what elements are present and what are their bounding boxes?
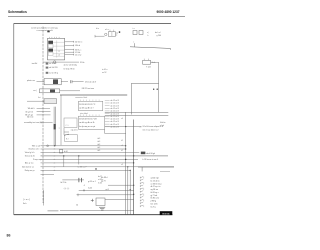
svg-text:ce 36 kl mn p: ce 36 kl mn p [151, 183, 162, 185]
svg-text:tb 3: tb 3 [97, 146, 100, 149]
svg-text:t u: t u [133, 27, 135, 30]
svg-text:g 244: g 244 [157, 35, 162, 37]
svg-text:ln 25 j: ln 25 j [151, 206, 157, 208]
svg-text:FN 22 text row: FN 22 text row [82, 87, 95, 90]
svg-text:bx f rd: bx f rd [155, 31, 160, 34]
svg-text:Lorem ipsum dolor st amet pg: Lorem ipsum dolor st amet pg [31, 27, 57, 30]
svg-text:ab: ab [54, 162, 56, 164]
svg-text:assembly text row (4): assembly text row (4) [24, 121, 42, 124]
svg-text:tb 3: tb 3 [97, 137, 100, 140]
svg-text:ab: ab [54, 145, 56, 147]
svg-text:Gn yel rd: Gn yel rd [25, 110, 33, 113]
svg-text:uv 52: uv 52 [102, 72, 106, 74]
svg-text:- 5: - 5 [83, 185, 85, 187]
svg-text:5d: 5d [76, 205, 78, 207]
svg-text:2x: 2x [140, 126, 142, 128]
svg-text:fu 65: fu 65 [98, 182, 102, 184]
svg-text:gt 55 xz 1: gt 55 xz 1 [88, 180, 96, 183]
svg-text:ab: ab [54, 170, 56, 172]
svg-text:eg 58 vw: eg 58 vw [151, 189, 159, 191]
svg-text:text lbl: text lbl [32, 62, 38, 65]
svg-text:Pump nop: Pump nop [33, 159, 41, 161]
svg-text:18 26 49 53 17 2: 18 26 49 53 17 2 [79, 104, 96, 106]
svg-text:ab 12 cd 3: ab 12 cd 3 [110, 127, 118, 129]
svg-text:fd 23 ls: fd 23 ls [61, 182, 67, 184]
svg-text:GN rd: GN rd [75, 44, 80, 47]
svg-text:Gearbox cd e: Gearbox cd e [28, 148, 39, 151]
svg-text:Schematics: Schematics [8, 10, 27, 14]
svg-text:Valve fg hi k: Valve fg hi k [25, 152, 35, 154]
svg-text:et 43 a: et 43 a [98, 178, 103, 181]
svg-text:cfg 12 tx: cfg 12 tx [71, 129, 78, 132]
svg-text:DC5 ab cd ef: DC5 ab cd ef [85, 82, 97, 84]
svg-text:b: b [148, 35, 149, 37]
svg-text:fh 69 xy z: fh 69 xy z [151, 192, 159, 194]
svg-text:ab 12 cd 34 efg: ab 12 cd 34 efg [64, 64, 77, 66]
svg-text:tb 3: tb 3 [97, 149, 100, 152]
svg-text:na 4c 12: na 4c 12 [49, 63, 56, 65]
svg-text:nb 5d 220: nb 5d 220 [49, 67, 57, 69]
svg-text:hi 56 jk 78 lm: hi 56 jk 78 lm [64, 69, 76, 71]
svg-text:b 44: b 44 [64, 151, 68, 153]
svg-text:e3: e3 [121, 164, 123, 166]
svg-text:+ a +: + a + [65, 125, 69, 127]
svg-text:54 Gm e: 54 Gm e [75, 42, 82, 44]
svg-text:ko lp mq nr os pt: ko lp mq nr os pt [79, 125, 95, 128]
svg-text:18 26 49 53 17 28: 18 26 49 53 17 28 [79, 119, 97, 121]
svg-text:a4: a4 [121, 118, 123, 120]
svg-text:sw |: sw | [33, 90, 37, 92]
svg-text:ae bf cg dh ei f: ae bf cg dh ei f [79, 108, 94, 110]
svg-text:ad 24 f gh: ad 24 f gh [151, 178, 159, 180]
svg-text:Anti lock br uv: Anti lock br uv [22, 165, 34, 168]
svg-text:ab: ab [54, 149, 56, 151]
svg-text:gj 71 ab: gj 71 ab [151, 195, 158, 197]
svg-text:15 rd w: 15 rd w [75, 53, 82, 56]
svg-text:tx 41 a: tx 41 a [102, 68, 107, 71]
svg-text:photo res: photo res [27, 79, 35, 82]
svg-text:hdr text: hdr text [27, 116, 34, 119]
svg-text:inter label: inter label [80, 112, 88, 115]
svg-text:rl tx: rl tx [96, 27, 99, 30]
svg-text:hk 82 cd e: hk 82 cd e [151, 198, 160, 200]
svg-text:-| |- -| |-: -| |- -| |- [64, 188, 70, 190]
svg-text:a b c: a b c [105, 29, 109, 31]
svg-text:a consectetuer elit: a consectetuer elit [37, 29, 54, 32]
svg-text:tb 3: tb 3 [97, 143, 100, 146]
svg-text:E 2: E 2 [66, 138, 69, 140]
svg-text:nc 6e 38 p: nc 6e 38 p [49, 72, 58, 74]
svg-text:jl 93 fg: jl 93 fg [150, 201, 156, 203]
svg-text:bc 15 de w: bc 15 de w [151, 180, 161, 182]
svg-text:hj 44: hj 44 [88, 188, 92, 190]
svg-text:ab: ab [54, 166, 56, 168]
svg-text:ds 21: ds 21 [98, 176, 102, 178]
svg-text:[ > a x ]: [ > a x ] [23, 198, 30, 201]
svg-text:86: 86 [7, 234, 11, 238]
svg-text:tb 3: tb 3 [97, 140, 100, 143]
svg-text:Wh bk lt: Wh bk lt [28, 107, 35, 110]
svg-text:b 18 lorem tx am 4: b 18 lorem tx am 4 [143, 158, 159, 161]
svg-text:nm et uw dolor si 2: nm et uw dolor si 2 [143, 129, 159, 132]
svg-text:connector label: connector label [75, 96, 88, 99]
svg-text:d1: d1 [121, 150, 123, 152]
svg-text:Relay wx yz: Relay wx yz [25, 170, 35, 172]
svg-text:Vda bc: Vda bc [160, 122, 166, 124]
svg-text:km 14 hi: km 14 hi [151, 203, 159, 205]
svg-text:ef gh: ef gh [160, 125, 164, 127]
svg-text:Sensor jk lm: Sensor jk lm [25, 155, 36, 158]
svg-text:12: 12 [58, 51, 60, 53]
svg-text:4x t: 4x t [38, 96, 41, 99]
svg-text:ab: ab [54, 152, 56, 154]
svg-text:T 124: T 124 [146, 67, 151, 69]
svg-text:tw 55 mn 7: tw 55 mn 7 [78, 166, 87, 169]
svg-text:gv 8: gv 8 [106, 189, 109, 191]
svg-text:Abs qr stu: Abs qr stu [25, 162, 33, 165]
svg-text:s: s [133, 41, 134, 43]
svg-text:df 47 qr s tu: df 47 qr s tu [151, 185, 161, 188]
svg-text:b2: b2 [121, 140, 123, 142]
svg-text:ab: ab [54, 155, 56, 157]
svg-text:ab: ab [54, 159, 56, 161]
svg-text:ae bf cg dh ei fk: ae bf cg dh ei fk [79, 122, 95, 124]
svg-text:8a b: 8a b [23, 203, 27, 205]
svg-text:9000 4890 1237: 9000 4890 1237 [156, 10, 179, 14]
svg-text:31 bk: 31 bk [80, 62, 84, 64]
svg-text:B6630b: B6630b [162, 213, 170, 215]
svg-text:Whl sn ab: Whl sn ab [32, 145, 40, 147]
